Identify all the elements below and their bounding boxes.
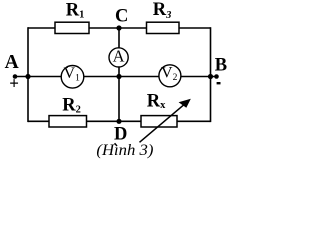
junction dot at D [116,119,121,124]
wire left vertical [27,27,29,122]
caption (Hinh 3) [96,142,153,159]
node A terminal dot [13,74,18,79]
voltmeter V1 circle [61,66,84,89]
svg-text:C: C [115,6,128,26]
junction dot at B [208,74,213,79]
wire middle vertical C-to-D [118,28,120,121]
svg-text:A: A [113,47,125,66]
wire middle horizontal A-to-B [15,76,217,78]
svg-text:A: A [5,52,19,73]
resistor R1 [55,22,89,33]
wire right vertical [210,27,212,122]
node B terminal dot [214,74,219,79]
svg-text:+: + [9,74,19,93]
junction dot at A [25,74,30,79]
resistor R2 [49,116,87,127]
svg-text:(Hınh 3): (Hınh 3) [96,142,153,159]
ammeter U1 circle [109,48,128,67]
resistor Rx [141,116,177,127]
wire bottom (through R2, D, Rx) [28,120,211,122]
svg-text:B: B [215,56,227,76]
wire top (A-left corner to right corner through R1, C, R3) [28,27,211,29]
arrow through Rx (variable) [140,99,191,143]
label - [217,82,221,84]
voltmeter V2 circle [159,65,181,87]
junction dot at C [116,25,121,30]
resistor R3 [147,22,180,33]
junction dot middle [116,74,121,79]
